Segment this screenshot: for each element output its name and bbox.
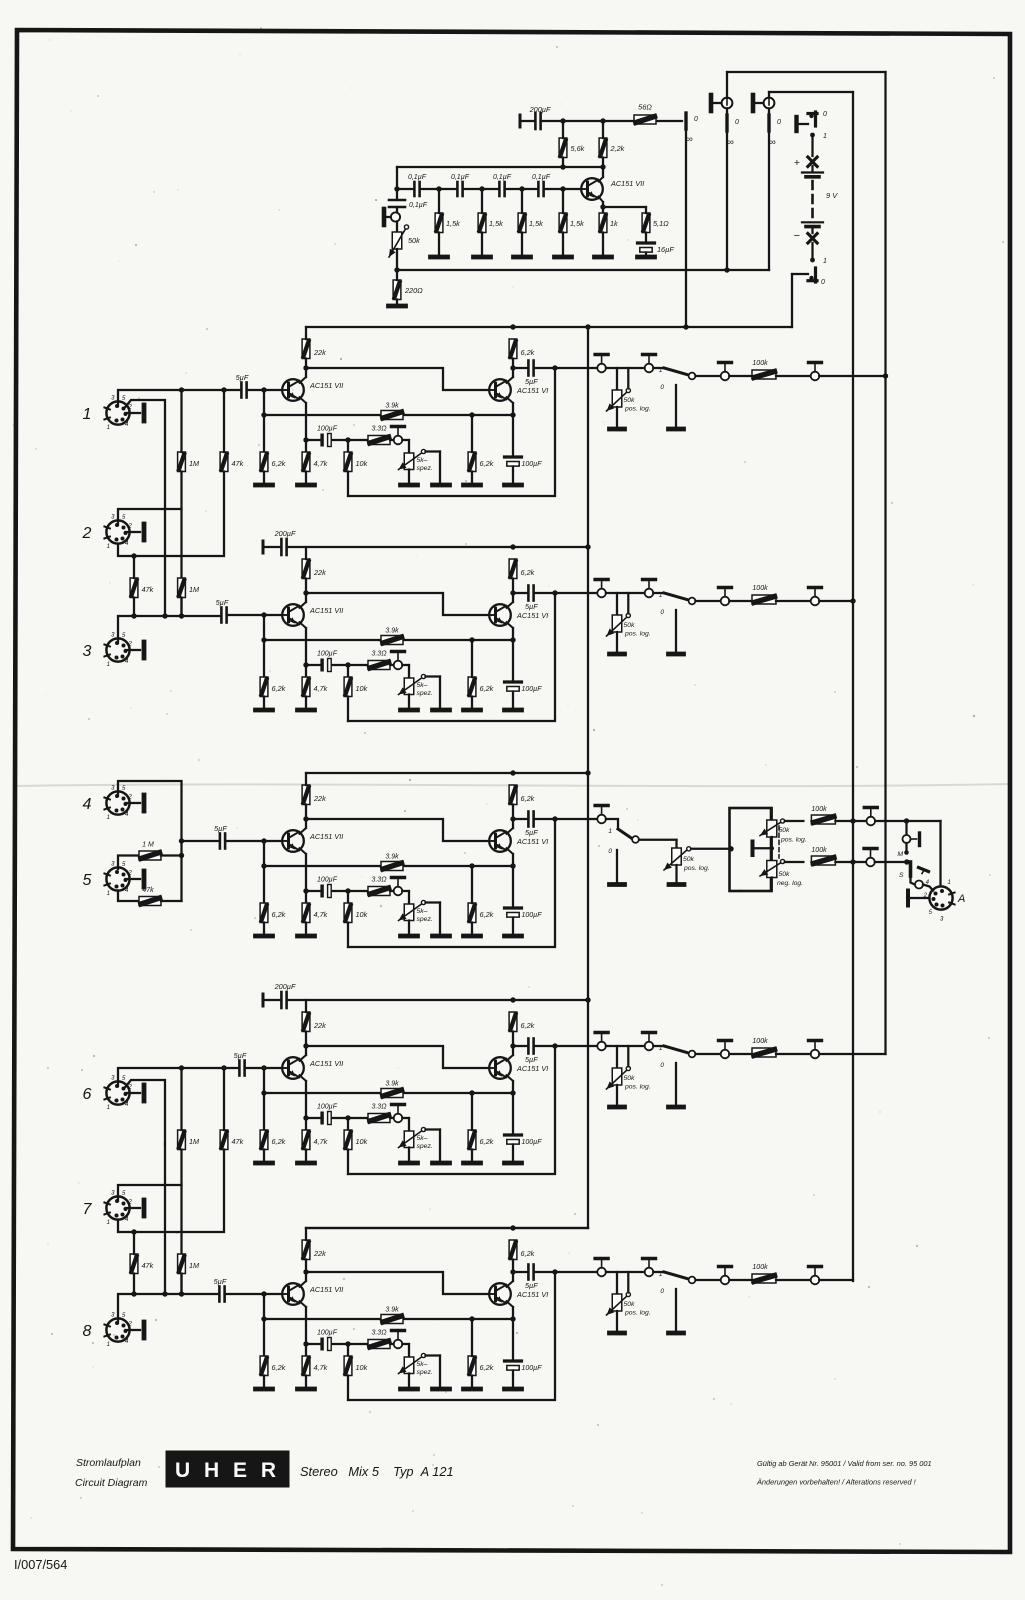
switch lever (ch2/3) <box>664 593 689 600</box>
node: 10k top (ch7/8) <box>345 1341 350 1346</box>
svg-text:10k: 10k <box>356 459 368 468</box>
potentiometer 50k master <box>672 848 682 865</box>
svg-text:AC151 VI: AC151 VI <box>516 386 548 395</box>
chassis bar (DIN 7) <box>126 1207 141 1209</box>
svg-text:AC151 VII: AC151 VII <box>309 606 343 615</box>
resistor 22k (ch6) <box>302 1012 310 1032</box>
svg-text:22k: 22k <box>313 794 326 803</box>
svg-text:9 V: 9 V <box>826 191 838 200</box>
resistor 1M (ch6) <box>178 1130 186 1150</box>
trimmer 5k-spez (ch6) <box>404 1131 414 1148</box>
resistor 3.3Ω (ch4/5) <box>368 887 390 896</box>
chassis bar (DIN 1) <box>126 412 141 414</box>
capacitor 5uF output (ch1) <box>513 367 528 369</box>
svg-text:100µF: 100µF <box>317 1104 338 1111</box>
svg-text:100µF: 100µF <box>522 912 543 919</box>
transistor AC151 second stage (ch1) <box>489 379 511 401</box>
svg-text:3.9k: 3.9k <box>385 1307 399 1314</box>
wire: battery return <box>792 273 808 275</box>
transistor AC151 second stage (ch6) <box>489 1057 511 1079</box>
resistor 6.2k feedback (ch1) <box>468 452 476 472</box>
switch lever (ch7/8) <box>664 1272 689 1279</box>
wire: 47k chain down <box>118 472 224 557</box>
wire: interstage coupling (ch7/8) <box>306 1272 489 1294</box>
wire: supply rail (ch2/3) <box>287 546 588 548</box>
gang link (dashed) <box>778 826 780 858</box>
svg-text:pos. log.: pos. log. <box>624 631 651 638</box>
svg-text:4,7k: 4,7k <box>314 1363 328 1372</box>
transistor AC151 (oscillator) <box>581 178 603 200</box>
svg-text:50k: 50k <box>779 827 791 834</box>
svg-text:6,2k: 6,2k <box>272 459 286 468</box>
svg-text:1: 1 <box>83 406 92 423</box>
svg-text:0,1µF: 0,1µF <box>408 174 427 181</box>
resistor 100k (ch1) <box>752 370 776 379</box>
node: 5.6k top <box>560 118 565 123</box>
svg-text:5µF: 5µF <box>525 602 538 611</box>
terminal end-bar (ch2/3 200uF) <box>262 541 265 553</box>
ground 4.7k (ch7/8) <box>298 1387 315 1392</box>
svg-text:10k: 10k <box>356 1137 368 1146</box>
wire: feedback return (ch7/8) <box>348 1272 555 1400</box>
switch contact (jack 2) <box>768 108 770 115</box>
switch contact (osc output) <box>684 113 687 129</box>
wire: supply rail (ch6) <box>287 999 588 1001</box>
svg-text:47k: 47k <box>142 585 154 594</box>
capacitor 0.1uF #4 <box>537 182 540 196</box>
svg-text:Gültig ab Gerät Nr. 95001 / Va: Gültig ab Gerät Nr. 95001 / Valid from s… <box>757 1459 932 1468</box>
svg-text:1: 1 <box>659 592 663 599</box>
svg-text:4,7k: 4,7k <box>314 684 328 693</box>
ground 5k-spez (ch4/5) <box>401 934 418 939</box>
chassis bar (DIN 3) <box>126 649 141 651</box>
svg-text:pos. log.: pos. log. <box>624 406 651 413</box>
wire: jack2 contact down to ground rail <box>768 131 770 270</box>
node: input bias (ch2/3) <box>261 612 266 617</box>
wire: channel 8 row to bus <box>819 1279 853 1281</box>
svg-text:2: 2 <box>82 525 92 542</box>
chassis bar (DIN 4) <box>126 802 141 804</box>
svg-text:6,2k: 6,2k <box>521 794 535 803</box>
DIN connector A (output) <box>929 886 952 909</box>
contact with bar (output B, ch2/3) <box>645 589 654 598</box>
resistor 1.5k #3 <box>518 213 526 233</box>
capacitor 100uF emitter (ch4/5) <box>505 906 522 909</box>
ground 6.2k feedback (ch1) <box>464 483 481 488</box>
svg-text:6: 6 <box>83 1086 92 1103</box>
ground switch (ch7/8) <box>669 1331 684 1336</box>
capacitor 5uF input (ch2/3) <box>220 608 223 623</box>
svg-text:Stromlaufplan: Stromlaufplan <box>76 1457 141 1469</box>
resistor 47k (ch8) <box>130 1254 138 1274</box>
potentiometer 50k neg.log (box) <box>771 848 773 860</box>
svg-text:spez.: spez. <box>417 1143 433 1150</box>
wire: oscillator top rail <box>522 120 535 122</box>
svg-text:6,2k: 6,2k <box>272 1363 286 1372</box>
svg-text:6,2k: 6,2k <box>480 910 494 919</box>
svg-text:5,1Ω: 5,1Ω <box>653 219 669 228</box>
wire: supply rail (ch4/5) <box>306 772 588 774</box>
capacitor 5uF output (ch6) <box>513 1045 528 1047</box>
svg-text:1: 1 <box>107 891 110 897</box>
resistor 5.1Ω <box>642 213 650 233</box>
svg-text:47k: 47k <box>142 1261 154 1270</box>
ground switch (ch1) <box>669 427 684 432</box>
svg-text:0: 0 <box>608 848 612 855</box>
svg-text:0,1µF: 0,1µF <box>409 202 428 209</box>
transistor AC151 second stage (ch4/5) <box>489 830 511 852</box>
svg-text:3.3Ω: 3.3Ω <box>371 426 387 433</box>
svg-text:2: 2 <box>128 795 133 801</box>
resistor 47k (ch3) <box>130 578 138 598</box>
DIN connector 7 (input) <box>106 1196 129 1219</box>
svg-text:200µF: 200µF <box>274 982 296 991</box>
capacitor 5uF input (ch7/8) <box>218 1287 221 1302</box>
battery on-off switch (top) <box>794 117 798 131</box>
svg-text:100k: 100k <box>752 360 768 367</box>
svg-text:100µF: 100µF <box>317 1330 338 1337</box>
stereo master box <box>730 808 772 891</box>
wire: DIN1 pin3 to ch1 input <box>118 390 241 406</box>
capacitor 200uF (ch6) <box>280 992 283 1008</box>
ground 6.2k input (ch1) <box>256 483 273 488</box>
svg-text:22k: 22k <box>313 568 326 577</box>
resistor 3.3Ω (ch2/3) <box>368 661 390 670</box>
wire: feedback return (ch4/5) <box>348 819 555 947</box>
svg-text:−: − <box>794 230 800 242</box>
svg-text:1: 1 <box>608 828 612 835</box>
resistor 4.7k (ch7/8) <box>302 1356 310 1376</box>
svg-text:5k–: 5k– <box>417 1361 428 1368</box>
wire: osc contact to supply rail <box>685 129 687 327</box>
contact with bar (output C, ch7/8) <box>721 1276 730 1285</box>
contact with bar (3.3Ω tap, ch1) <box>394 436 403 445</box>
svg-text:5k–: 5k– <box>417 1135 428 1142</box>
contact with bar (upper master) <box>867 817 876 826</box>
svg-text:1: 1 <box>823 133 827 140</box>
resistor 6.2k input (ch6) <box>260 1130 268 1150</box>
svg-text:3: 3 <box>83 643 92 660</box>
ground 100uF (ch4/5) <box>505 934 522 939</box>
resistor 10k (ch7/8) <box>344 1356 352 1376</box>
resistor 220Ω <box>393 280 401 300</box>
contact with bar (output A, ch2/3) <box>597 589 606 598</box>
ground master pot <box>669 882 684 887</box>
contact with bar (3.3Ω tap, ch2/3) <box>394 661 403 670</box>
wire: 5k wiper to ground (ch2/3) <box>426 675 441 677</box>
ground (1.5k #1) <box>431 255 448 260</box>
svg-text:0,1µF: 0,1µF <box>532 174 551 181</box>
svg-text:50k: 50k <box>779 871 791 878</box>
svg-text:spez.: spez. <box>417 916 433 923</box>
DIN connector 2 (input) <box>106 520 129 543</box>
capacitor 100uF emitter (ch6) <box>505 1133 522 1136</box>
svg-text:10k: 10k <box>356 910 368 919</box>
wire: supply rail (ch7/8) <box>306 1227 588 1229</box>
capacitor 0.1uF #3 <box>498 182 501 196</box>
wire: DIN7 pin3 tap <box>118 1185 182 1201</box>
wire: 5k wiper to ground (ch6) <box>426 1128 441 1130</box>
wire: 1M chain to DIN7 <box>180 1150 182 1295</box>
svg-text:2,2k: 2,2k <box>610 144 625 153</box>
wire: lever to master pot <box>639 839 677 841</box>
ground 6.2k input (ch7/8) <box>256 1387 273 1392</box>
svg-text:50k: 50k <box>683 856 695 863</box>
ground 6.2k feedback (ch6) <box>464 1161 481 1166</box>
svg-text:4,7k: 4,7k <box>314 1137 328 1146</box>
capacitor 5uF output (ch4/5) <box>513 818 528 820</box>
resistor 3.9k (ch4/5) <box>381 862 403 871</box>
svg-text:1M: 1M <box>189 585 200 594</box>
resistor 47k horizontal (ch4/5) <box>118 891 139 902</box>
capacitor 16uF <box>638 241 655 244</box>
wire: DIN8 pin3 to ch8 input <box>118 1294 219 1323</box>
svg-text:220Ω: 220Ω <box>404 286 423 295</box>
svg-text:5k–: 5k– <box>417 457 428 464</box>
resistor 100k (ch6) <box>752 1048 776 1057</box>
capacitor 5uF input (ch6) <box>238 1061 241 1076</box>
svg-text:0: 0 <box>823 111 827 118</box>
resistor 6.2k input (ch1) <box>260 452 268 472</box>
transistor AC151 first stage (ch1) <box>282 379 304 401</box>
svg-text:5k–: 5k– <box>417 908 428 915</box>
DIN connector 8 (input) <box>106 1318 129 1341</box>
capacitor 100uF coupling (ch7/8) <box>306 1343 320 1345</box>
ground 100uF (ch2/3) <box>505 708 522 713</box>
ground master switch <box>610 882 625 887</box>
potentiometer 50k volume (ch2/3) <box>616 593 618 615</box>
svg-text:AC151 VI: AC151 VI <box>516 1290 548 1299</box>
capacitor 100uF coupling (ch6) <box>306 1117 320 1119</box>
jack output 1 <box>709 95 714 111</box>
svg-text:22k: 22k <box>313 1021 326 1030</box>
svg-text:2: 2 <box>128 405 133 411</box>
ground 5k-spez (ch7/8) <box>401 1387 418 1392</box>
svg-text:1: 1 <box>107 1220 110 1226</box>
DIN connector 3 (input) <box>106 638 129 661</box>
potentiometer 50k volume (ch1) <box>616 368 618 390</box>
svg-text:3.3Ω: 3.3Ω <box>371 651 387 658</box>
svg-text:5µF: 5µF <box>214 1277 227 1286</box>
ground (1k) <box>595 255 612 260</box>
svg-text:1: 1 <box>107 815 110 821</box>
wire: feedback rail (ch1) <box>264 414 381 416</box>
resistor 4.7k (ch1) <box>302 452 310 472</box>
resistor 6.2k feedback (ch4/5) <box>468 903 476 923</box>
switch lever (ch1) <box>664 368 689 375</box>
resistor 10k (ch2/3) <box>344 677 352 697</box>
svg-text:3.9k: 3.9k <box>385 403 399 410</box>
wire: channel 2/3 row to bus <box>819 600 853 602</box>
svg-text:1,5k: 1,5k <box>489 219 503 228</box>
resistor 6.2k collector (ch7/8) <box>509 1240 517 1260</box>
wire: switch off to ground (ch2/3) <box>675 610 677 652</box>
wire: interstage coupling (ch4/5) <box>306 819 489 841</box>
capacitor 200uF (ch2/3) <box>280 539 283 555</box>
svg-text:5µF: 5µF <box>214 824 227 833</box>
svg-text:U H E R: U H E R <box>175 1459 280 1482</box>
contact with bar (output A, ch4/5) <box>597 815 606 824</box>
svg-text:5,6k: 5,6k <box>571 144 585 153</box>
transistor AC151 first stage (ch7/8) <box>282 1283 304 1305</box>
svg-text:10k: 10k <box>356 684 368 693</box>
resistor 10k (ch6) <box>344 1130 352 1150</box>
contact M <box>905 821 907 835</box>
resistor 3.9k (ch6) <box>381 1089 403 1098</box>
svg-text:5µF: 5µF <box>525 828 538 837</box>
contact with bar (output A, ch7/8) <box>597 1268 606 1277</box>
svg-text:100k: 100k <box>811 806 827 813</box>
wire: supply rail (ch1) <box>306 326 792 328</box>
contact S circle <box>911 876 915 885</box>
resistor 6.2k input (ch7/8) <box>260 1356 268 1376</box>
ground (16uF) <box>638 255 655 260</box>
wire: upper output to DIN A <box>875 820 940 822</box>
capacitor 100uF coupling (ch4/5) <box>306 890 320 892</box>
wire: interstage coupling (ch2/3) <box>306 593 489 615</box>
DIN connector 1 (input) <box>106 401 129 424</box>
ground 6.2k input (ch4/5) <box>256 934 273 939</box>
UHER logo <box>166 1451 290 1488</box>
ground (220Ω) <box>389 304 406 309</box>
resistor 5.6k <box>559 138 567 158</box>
potentiometer 50k volume (ch6) <box>616 1046 618 1068</box>
contact with bar (output D, ch1) <box>811 372 820 381</box>
wire: feedback return (ch1) <box>348 368 555 496</box>
wire: 47k chain down <box>118 1150 224 1233</box>
svg-text:AC151 VII: AC151 VII <box>309 1059 343 1068</box>
trimmer 5k-spez (ch7/8) <box>404 1357 414 1374</box>
node: 22k bottom (ch2/3) <box>303 590 308 595</box>
jack (oscillator input) <box>382 209 387 225</box>
potentiometer 50k volume (ch7/8) <box>616 1272 618 1294</box>
transistor AC151 first stage (ch6) <box>282 1057 304 1079</box>
ground 4.7k (ch1) <box>298 483 315 488</box>
svg-text:10k: 10k <box>356 1363 368 1372</box>
svg-text:100k: 100k <box>811 847 827 854</box>
svg-text:6,2k: 6,2k <box>480 1137 494 1146</box>
resistor 6.2k collector (ch2/3) <box>509 559 517 579</box>
svg-text:1: 1 <box>107 544 110 550</box>
wire: feedback rail (ch4/5) <box>264 865 381 867</box>
node: input bias (ch4/5) <box>261 838 266 843</box>
jack output 2 <box>751 95 756 111</box>
wire: DIN1 pin5 link <box>124 400 165 616</box>
contact with bar (output C, ch6) <box>721 1050 730 1059</box>
svg-text:100µF: 100µF <box>317 426 338 433</box>
svg-text:3.9k: 3.9k <box>385 1081 399 1088</box>
ground wiper (ch1) <box>433 483 450 488</box>
potentiometer 50k (oscillator) <box>396 222 398 233</box>
wire: interstage coupling (ch6) <box>306 1046 489 1068</box>
node: 2.2k top <box>600 118 605 123</box>
svg-text:0: 0 <box>660 1062 664 1069</box>
resistor 22k (ch2/3) <box>302 559 310 579</box>
wire: upper master output <box>785 820 804 822</box>
svg-text:1,5k: 1,5k <box>570 219 584 228</box>
contact with bar (output C, ch2/3) <box>721 597 730 606</box>
node: 10k top (ch4/5) <box>345 888 350 893</box>
svg-text:50k: 50k <box>624 1301 636 1308</box>
wire: 5k wiper to ground (ch4/5) <box>426 901 441 903</box>
svg-text:0: 0 <box>821 279 825 286</box>
svg-text:47k: 47k <box>232 1137 244 1146</box>
resistor 1M (ch3) <box>178 578 186 598</box>
svg-text:1: 1 <box>659 1045 663 1052</box>
svg-text:AC151 VI: AC151 VI <box>516 1064 548 1073</box>
svg-text:2: 2 <box>128 524 133 530</box>
node: input bias (ch1) <box>261 387 266 392</box>
transistor AC151 second stage (ch2/3) <box>489 604 511 626</box>
svg-text:1 M: 1 M <box>142 842 154 849</box>
svg-text:1M: 1M <box>189 1261 200 1270</box>
svg-text:3.3Ω: 3.3Ω <box>371 1330 387 1337</box>
resistor 47k (ch1) <box>220 452 228 472</box>
svg-text:56Ω: 56Ω <box>638 103 652 112</box>
ground wiper (ch2/3) <box>433 708 450 713</box>
wire: feedback return (ch2/3) <box>348 593 555 721</box>
svg-text:+: + <box>794 157 800 169</box>
capacitor 200uF (oscillator) <box>534 113 537 129</box>
resistor 3.3Ω (ch6) <box>368 1114 390 1123</box>
svg-text:6,2k: 6,2k <box>480 684 494 693</box>
svg-text:1: 1 <box>823 258 827 265</box>
ground volume pot (ch6) <box>610 1105 625 1110</box>
terminal end-bar (ch6 200uF) <box>262 994 265 1006</box>
svg-text:50k: 50k <box>624 622 636 629</box>
resistor 100k (ch2/3) <box>752 595 776 604</box>
svg-text:100µF: 100µF <box>522 1139 543 1146</box>
ground 100uF (ch6) <box>505 1161 522 1166</box>
contact with bar (output B, ch1) <box>645 364 654 373</box>
wire: jack1 contact down to ground rail <box>726 131 728 270</box>
resistor 6.2k feedback (ch2/3) <box>468 677 476 697</box>
svg-text:AC151 VII: AC151 VII <box>309 832 343 841</box>
svg-text:200µF: 200µF <box>529 105 551 114</box>
svg-text:4,7k: 4,7k <box>314 459 328 468</box>
ground switch (ch6) <box>669 1105 684 1110</box>
svg-text:1M: 1M <box>189 1137 200 1146</box>
switch S <box>909 862 913 876</box>
svg-text:200µF: 200µF <box>274 529 296 538</box>
bus line right (to channel rows 1 and 6) <box>884 72 886 1054</box>
svg-text:6,2k: 6,2k <box>521 1021 535 1030</box>
svg-text:spez.: spez. <box>417 690 433 697</box>
ground (1.5k #2) <box>474 255 491 260</box>
trimmer 5k-spez (ch1) <box>404 453 414 470</box>
svg-text:5µF: 5µF <box>525 1281 538 1290</box>
capacitor 100uF emitter (ch7/8) <box>505 1359 522 1362</box>
svg-text:S: S <box>899 872 904 879</box>
svg-text:6,2k: 6,2k <box>272 1137 286 1146</box>
svg-text:0,1µF: 0,1µF <box>451 174 470 181</box>
resistor 4.7k (ch6) <box>302 1130 310 1150</box>
wire: DIN3 pin3 to ch2 input <box>118 616 221 643</box>
contact with bar (lower master) <box>866 858 875 867</box>
ground (1.5k #4) <box>555 255 572 260</box>
svg-text:1: 1 <box>659 367 663 374</box>
svg-text:50k: 50k <box>624 1075 636 1082</box>
transistor AC151 first stage (ch2/3) <box>282 604 304 626</box>
ground (1.5k #3) <box>514 255 531 260</box>
svg-text:47k: 47k <box>142 887 154 894</box>
resistor 2.2k <box>599 138 607 158</box>
svg-text:0: 0 <box>660 1288 664 1295</box>
svg-text:2: 2 <box>128 1200 133 1206</box>
ground volume pot (ch2/3) <box>610 652 625 657</box>
capacitor 5uF output (ch2/3) <box>513 592 528 594</box>
svg-text:1: 1 <box>107 425 110 431</box>
